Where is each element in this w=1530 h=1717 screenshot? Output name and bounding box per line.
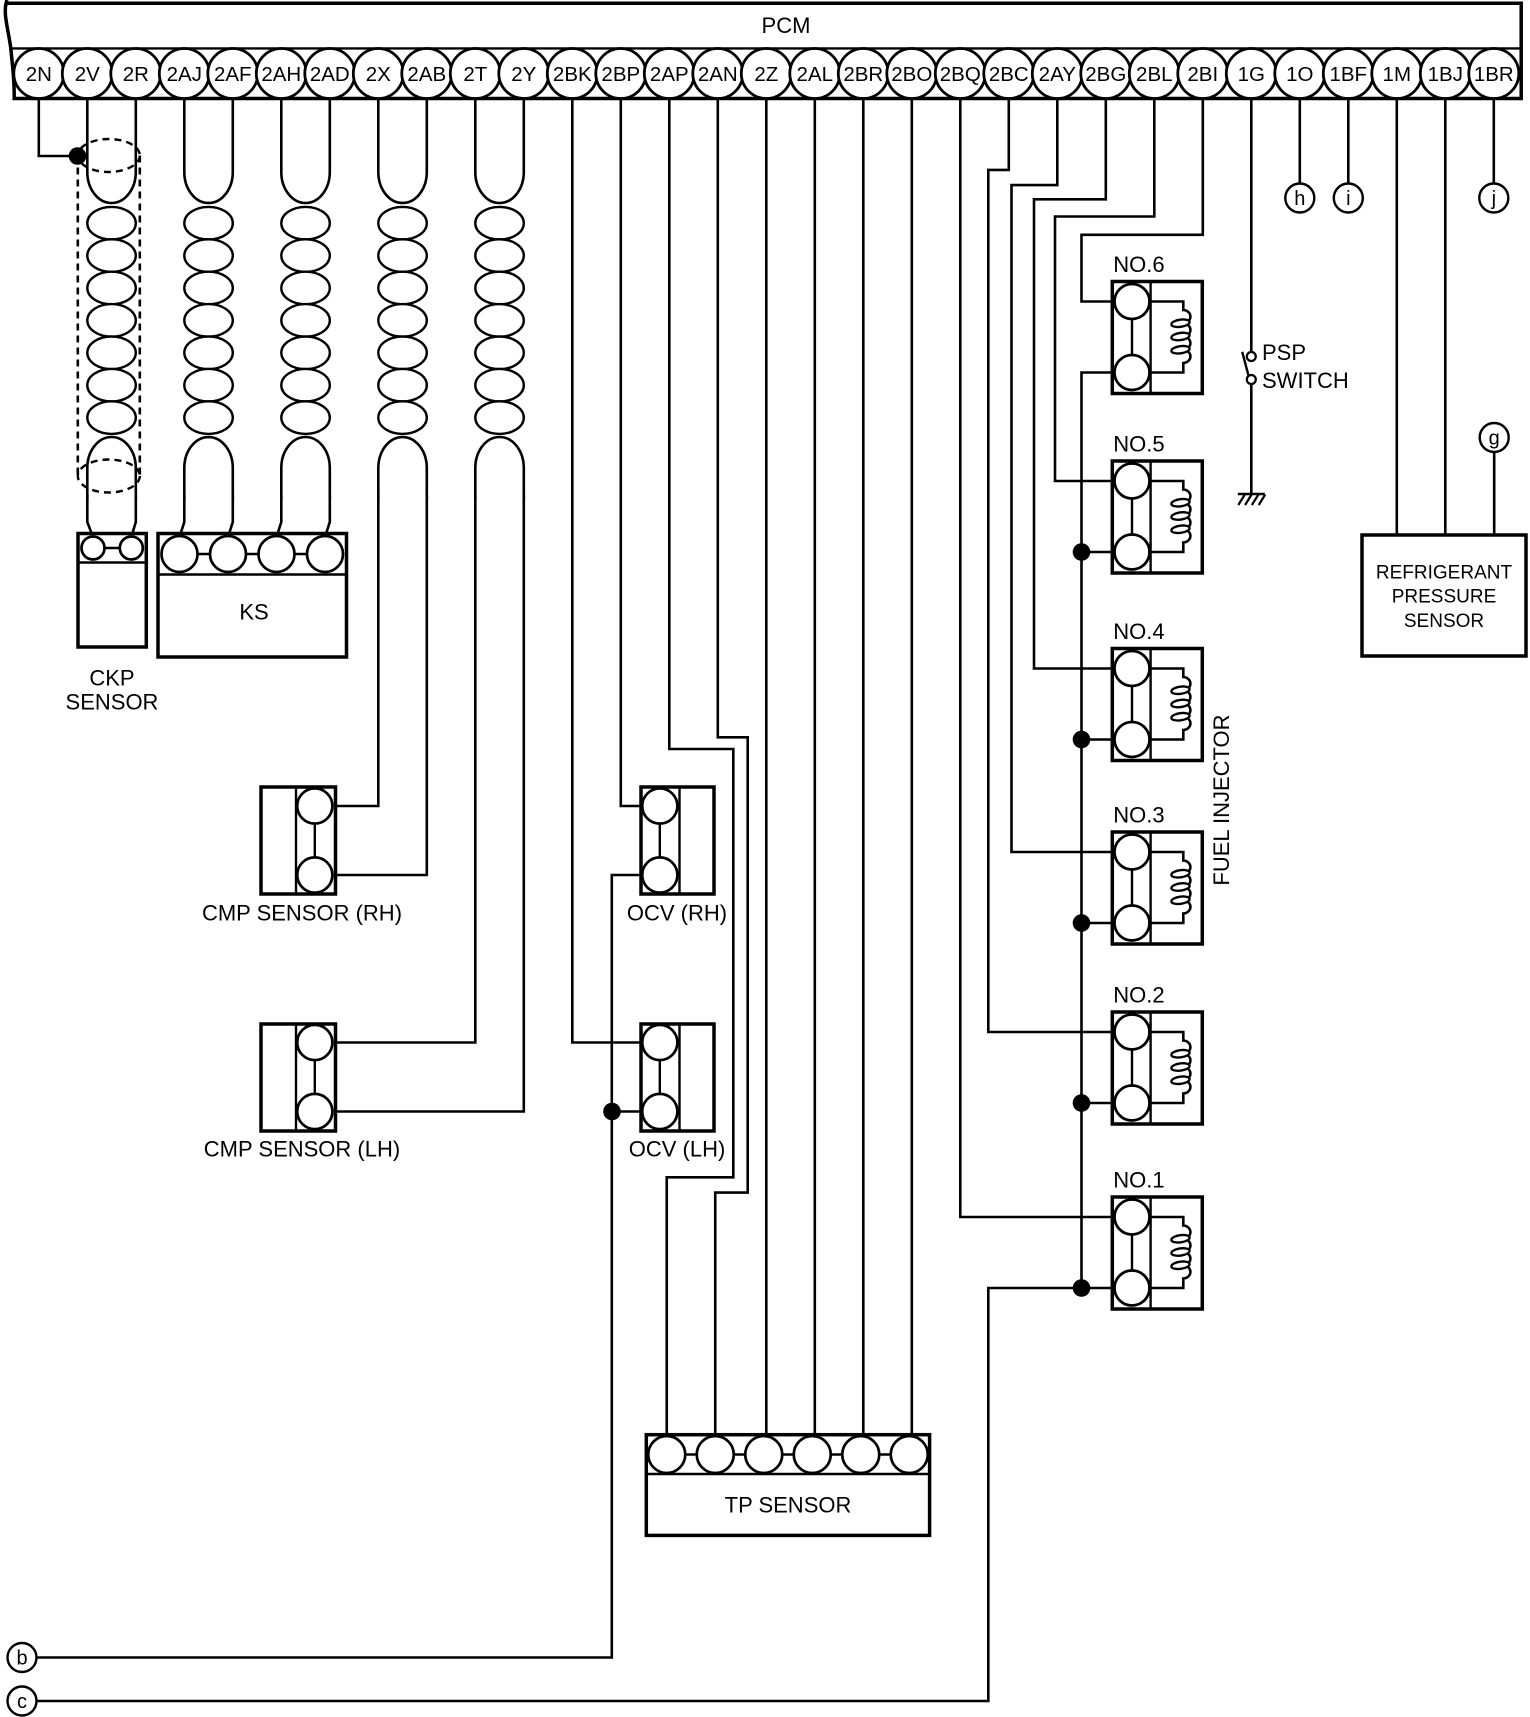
svg-text:1BF: 1BF [1329, 63, 1367, 86]
wire OCV RH bottom / OCV LH bottom to node b [37, 875, 660, 1658]
svg-text:SENSOR: SENSOR [66, 690, 159, 715]
svg-text:2AF: 2AF [214, 63, 252, 86]
svg-text:1BR: 1BR [1474, 63, 1514, 86]
svg-text:2BC: 2BC [989, 63, 1029, 86]
svg-text:TP SENSOR: TP SENSOR [725, 1493, 852, 1518]
wire twisted pair 2AH/2AD to KS [277, 99, 330, 555]
svg-text:OCV (LH): OCV (LH) [629, 1137, 726, 1162]
svg-text:2AY: 2AY [1039, 63, 1077, 86]
svg-text:2Y: 2Y [511, 63, 536, 86]
wire 2BG to injector NO.4 top [1034, 99, 1132, 669]
junction dot shield [69, 147, 87, 165]
svg-text:2N: 2N [26, 63, 52, 86]
shielded cable (dashed shield) for CKP sensor wires [78, 139, 140, 493]
junction dot injector NO.2 [1073, 1094, 1091, 1112]
knock sensor KS [158, 534, 347, 658]
wire PSP switch to ground [1250, 384, 1253, 494]
svg-text:NO.1: NO.1 [1113, 1168, 1164, 1193]
junction dot injector NO.4 [1073, 731, 1091, 749]
CKP sensor connector [78, 534, 146, 648]
wire twisted pair 2V/2R to CKP sensor [87, 99, 136, 549]
fuel injector NO.2 [1112, 983, 1202, 1125]
fuel injector NO.3 [1112, 803, 1202, 945]
wire 1BJ to refrigerant pressure sensor [1444, 99, 1447, 537]
wire 2AY to injector NO.3 top [1012, 99, 1133, 853]
svg-text:NO.5: NO.5 [1113, 432, 1164, 457]
node j [1479, 184, 1508, 213]
wire twisted pair 2T/2Y to CMP sensor LH [315, 99, 524, 1112]
junction dot injector NO.5 [1073, 543, 1091, 561]
svg-text:2BO: 2BO [891, 63, 932, 86]
svg-text:CKP: CKP [89, 666, 134, 691]
wire 2Z to TP sensor pin3 [764, 99, 767, 1455]
wire injector NO.5 bottom stub [1082, 551, 1133, 554]
svg-text:1G: 1G [1238, 63, 1265, 86]
wire injector NO.2 bottom stub [1082, 1102, 1133, 1105]
svg-text:NO.6: NO.6 [1113, 252, 1164, 277]
node c [8, 1687, 37, 1716]
wire injector common bus to node c [37, 373, 1133, 1702]
svg-text:c: c [17, 1691, 27, 1713]
wire node g to refrigerant pressure sensor [1493, 438, 1496, 537]
svg-text:1O: 1O [1286, 63, 1313, 86]
TP sensor [646, 1435, 929, 1536]
svg-text:2AJ: 2AJ [167, 63, 202, 86]
svg-text:NO.3: NO.3 [1113, 803, 1164, 828]
svg-text:PRESSURE: PRESSURE [1392, 587, 1497, 608]
wire 1O to node h [1299, 99, 1302, 199]
label OCV (LH) [629, 1137, 726, 1162]
CMP sensor RH [261, 787, 336, 894]
wire 2BP to OCV RH top [621, 99, 660, 807]
label CKP SENSOR [66, 666, 159, 715]
svg-text:2R: 2R [123, 63, 149, 86]
wire 2BQ to injector NO.1 top [960, 99, 1132, 1218]
svg-text:1M: 1M [1383, 63, 1411, 86]
svg-text:KS: KS [239, 600, 268, 625]
svg-text:NO.4: NO.4 [1113, 619, 1164, 644]
svg-text:PSP: PSP [1262, 340, 1306, 365]
svg-text:h: h [1294, 188, 1305, 210]
svg-text:SENSOR: SENSOR [1404, 611, 1484, 632]
svg-text:FUEL INJECTOR: FUEL INJECTOR [1209, 714, 1234, 885]
wire 2BR to TP sensor pin5 [861, 99, 864, 1455]
wire 2AP to TP sensor pin1 [667, 99, 734, 1455]
junction dot OCV common [603, 1103, 621, 1121]
svg-text:CMP SENSOR (RH): CMP SENSOR (RH) [202, 901, 402, 926]
svg-text:2AN: 2AN [698, 63, 738, 86]
node i [1334, 184, 1363, 213]
label FUEL INJECTOR [1209, 714, 1234, 885]
wire 2BI to injector NO.6 top [1082, 99, 1203, 302]
svg-text:2AH: 2AH [261, 63, 301, 86]
svg-text:i: i [1346, 188, 1350, 210]
label CMP SENSOR (LH) [204, 1137, 400, 1162]
refrigerant pressure sensor [1362, 535, 1526, 656]
svg-text:1BJ: 1BJ [1428, 63, 1463, 86]
node h [1285, 184, 1314, 213]
wire twisted pair 2AJ/2AF to KS [180, 99, 233, 555]
junction dot injector NO.3 [1073, 914, 1091, 932]
wire 2N to shield [39, 99, 78, 157]
fuel injector NO.6 [1112, 252, 1202, 394]
svg-text:2BQ: 2BQ [940, 63, 981, 86]
svg-text:2V: 2V [75, 63, 100, 86]
PCM connector pins [14, 49, 1519, 99]
svg-text:2BR: 2BR [843, 63, 883, 86]
fuel injector NO.1 [1112, 1168, 1202, 1310]
PCM box [5, 0, 1521, 99]
svg-text:PCM: PCM [762, 13, 811, 38]
svg-text:2T: 2T [463, 63, 487, 86]
svg-text:REFRIGERANT: REFRIGERANT [1376, 563, 1513, 584]
wire 2BO to TP sensor pin6 [909, 99, 912, 1455]
svg-text:NO.2: NO.2 [1113, 983, 1164, 1008]
svg-text:2BG: 2BG [1085, 63, 1126, 86]
junction dot injector NO.1 [1073, 1279, 1091, 1297]
CMP sensor LH [261, 1024, 336, 1131]
fuel injector NO.4 [1112, 619, 1202, 761]
svg-text:CMP SENSOR (LH): CMP SENSOR (LH) [204, 1137, 400, 1162]
PSP switch [1242, 352, 1256, 384]
svg-text:OCV (RH): OCV (RH) [627, 901, 727, 926]
svg-text:2AB: 2AB [407, 63, 446, 86]
ground [1238, 494, 1265, 505]
svg-text:2AP: 2AP [650, 63, 689, 86]
OCV LH [641, 1024, 714, 1131]
svg-text:2BI: 2BI [1187, 63, 1218, 86]
svg-text:2BK: 2BK [553, 63, 592, 86]
wire 2AL to TP sensor pin4 [812, 99, 815, 1455]
label OCV (RH) [627, 901, 727, 926]
wire injector NO.1 bottom stub [1082, 1287, 1133, 1290]
wire 1BF to node i [1347, 99, 1350, 199]
wire 2AN to TP sensor pin2 [715, 99, 747, 1455]
label CMP SENSOR (RH) [202, 901, 402, 926]
wire injector NO.3 bottom stub [1082, 922, 1133, 925]
wire 2BK to OCV LH top [572, 99, 660, 1043]
wire 1BR to node j [1493, 99, 1496, 199]
svg-text:j: j [1491, 188, 1496, 210]
OCV RH [641, 787, 714, 894]
label PSP SWITCH [1262, 340, 1349, 393]
node g [1480, 423, 1509, 452]
wire 2BL to injector NO.5 top [1055, 99, 1154, 482]
wire 1G to PSP switch [1250, 99, 1253, 353]
wire twisted pair 2X/2AB to CMP sensor RH [315, 99, 427, 876]
svg-text:2AL: 2AL [797, 63, 833, 86]
svg-text:2Z: 2Z [754, 63, 778, 86]
label PCM [762, 13, 811, 38]
fuel injector NO.5 [1112, 432, 1202, 574]
wire 1M to refrigerant pressure sensor [1396, 99, 1399, 537]
svg-text:2BP: 2BP [601, 63, 640, 86]
svg-text:2X: 2X [366, 63, 391, 86]
svg-text:g: g [1489, 428, 1500, 450]
svg-text:2BL: 2BL [1136, 63, 1172, 86]
svg-text:b: b [16, 1648, 27, 1670]
wire 2BC to injector NO.2 top [988, 99, 1132, 1033]
svg-text:SWITCH: SWITCH [1262, 368, 1349, 393]
wire injector NO.4 bottom stub [1082, 738, 1133, 741]
svg-text:2AD: 2AD [310, 63, 350, 86]
node b [8, 1643, 37, 1672]
